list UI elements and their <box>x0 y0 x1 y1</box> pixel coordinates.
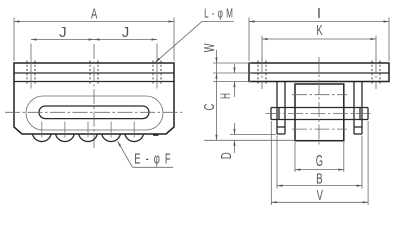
vertical centerline front view <box>93 44 95 148</box>
dimension G extension lines <box>294 142 296 172</box>
scallop center mark 4 <box>110 122 112 138</box>
svg-text:V: V <box>317 187 324 204</box>
central body <box>295 84 344 141</box>
hidden plate hole at x=262 <box>257 61 259 85</box>
scallop foot arc 4 <box>102 134 121 142</box>
leader E-phiF <box>133 166 174 168</box>
plate hole centerline x=262 <box>261 58 263 89</box>
hidden hole lines at x=31 <box>26 61 28 85</box>
side view plate mid line <box>249 72 389 74</box>
extension line plate mid <box>213 72 251 74</box>
plate hole centerline x=376 <box>375 58 377 89</box>
scallop center mark 3 <box>87 122 89 138</box>
front view outer slot boss <box>26 96 163 130</box>
svg-text:I: I <box>317 5 321 22</box>
front view outline <box>14 63 174 134</box>
scallop center mark 5 <box>133 122 135 138</box>
dimension V extension lines <box>270 121 272 205</box>
scallop foot arc 5 <box>125 134 144 142</box>
right leg <box>353 82 355 135</box>
extension line body bottom <box>204 139 295 141</box>
hole center line x=31 <box>30 44 32 89</box>
svg-text:A: A <box>91 5 98 22</box>
left leg <box>276 82 278 135</box>
svg-text:H: H <box>219 93 234 99</box>
extension line plate top <box>213 62 251 64</box>
extension line legs bottom <box>230 134 276 136</box>
crossbar left head <box>270 108 272 120</box>
hidden hole lines at x=157 <box>152 61 154 85</box>
hole center line x=157 <box>156 44 158 89</box>
svg-text:B: B <box>316 171 323 188</box>
dimension H arrows <box>234 64 236 73</box>
svg-text:K: K <box>316 22 323 39</box>
dimension D arrows <box>234 123 236 135</box>
dimension I extension lines <box>248 18 250 62</box>
scallop center mark 1 <box>41 122 43 138</box>
svg-text:C: C <box>201 104 218 111</box>
dimension A line <box>14 21 174 23</box>
front view groove line lower <box>14 81 174 83</box>
dimension C line <box>216 63 218 140</box>
leader L-phiM <box>202 20 234 22</box>
scallop center mark 2 <box>64 122 66 138</box>
svg-text:J: J <box>59 24 67 41</box>
svg-text:G: G <box>316 151 323 169</box>
scallop foot arc 2 <box>56 134 75 142</box>
dimension B extension lines <box>276 136 278 189</box>
body upper centerline <box>292 94 347 96</box>
front view groove line upper <box>14 72 174 74</box>
dimension K extension lines <box>261 36 263 61</box>
dimension A extension lines <box>13 18 15 62</box>
front view slot <box>39 106 149 119</box>
hidden plate hole at x=376 <box>371 61 373 85</box>
svg-text:W: W <box>201 43 218 52</box>
horizontal centerline of slot <box>5 111 182 113</box>
svg-text:D: D <box>218 152 235 159</box>
dimension I line <box>249 21 389 23</box>
dimension G line <box>295 169 344 171</box>
scallop foot arc 1 <box>33 134 52 142</box>
scallop foot arc 3 <box>79 134 98 142</box>
extension line plate bottom <box>213 81 251 83</box>
svg-text:J: J <box>122 24 130 41</box>
crossbar <box>271 107 368 109</box>
side view top plate <box>249 63 389 82</box>
crossbar right head <box>359 108 361 120</box>
body lower centerline <box>292 128 347 130</box>
dimension W <box>216 50 218 63</box>
svg-text:L-φM: L-φM <box>204 7 236 21</box>
vertical centerline side view <box>318 57 320 147</box>
dimension J line <box>31 39 157 41</box>
dimension V line <box>271 201 368 203</box>
dimension K line <box>262 38 376 40</box>
dimension B line <box>277 185 362 187</box>
crossbar centerline <box>266 113 373 115</box>
svg-text:E-φF: E-φF <box>134 150 175 167</box>
hidden hole lines at x=94 <box>89 61 91 85</box>
small tab bottom right <box>153 134 159 136</box>
